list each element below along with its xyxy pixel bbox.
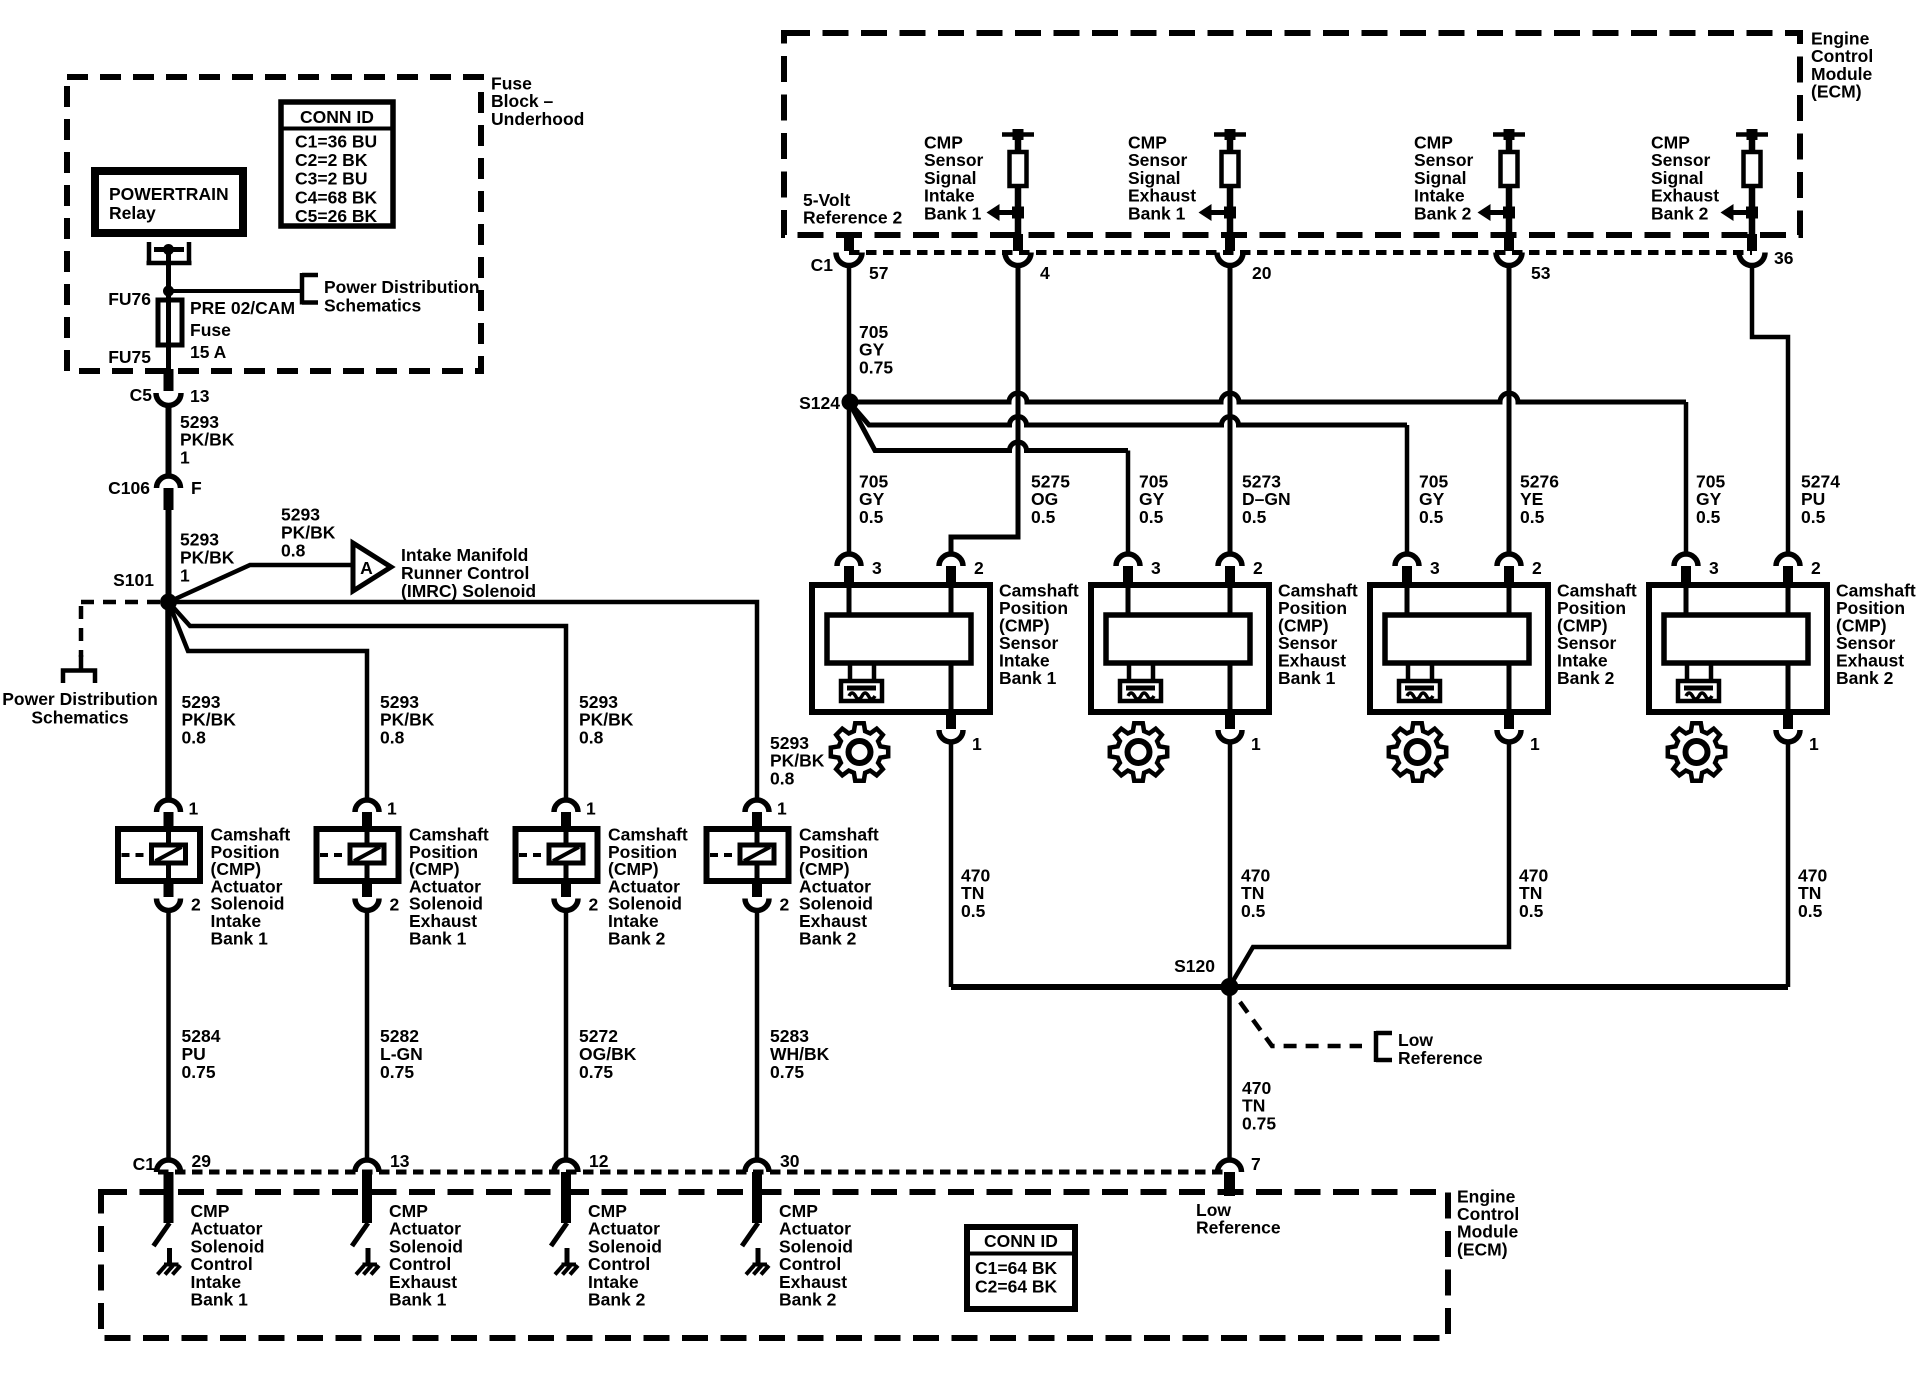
- CONN ID table (ECM): [967, 1227, 1075, 1309]
- solenoid L3: Camshaft Position (CMP) Actuator Solenoid Intake Bank 2: [516, 829, 598, 881]
- svg-text:Relay: Relay: [109, 203, 156, 223]
- svg-text:(IMRC) Solenoid: (IMRC) Solenoid: [401, 581, 536, 601]
- svg-text:S120: S120: [1174, 956, 1215, 976]
- resistor R2 (5V pull-up, CMP sensor signal Exhaust Bank 1): [1214, 132, 1246, 137]
- svg-text:(ECM): (ECM): [1457, 1239, 1508, 1259]
- svg-text:3: 3: [1709, 558, 1719, 578]
- off-page bracket: Power Distribution Schematics: [300, 273, 305, 305]
- ECM connector C1 pin 12: [554, 1160, 578, 1172]
- svg-text:C4=68 BK: C4=68 BK: [295, 187, 378, 207]
- svg-text:Low: Low: [1398, 1030, 1433, 1050]
- wire S120 to ECM pin 7 (470 TN 0.75): [1227, 987, 1232, 1160]
- svg-text:PRE 02/CAM: PRE 02/CAM: [190, 298, 295, 318]
- wire S101 to CMP actuator 2 branch: [169, 602, 368, 800]
- wire to power distribution bracket: [169, 289, 303, 293]
- svg-text:C1: C1: [811, 255, 834, 275]
- svg-text:1: 1: [1809, 734, 1819, 754]
- ground (ECM driver 3): [562, 1263, 577, 1267]
- svg-text:F: F: [191, 478, 202, 498]
- svg-text:30: 30: [780, 1151, 800, 1171]
- wire S101 to CMP actuator 4 branch: [169, 602, 758, 800]
- CMP sensor B2 pin 2 connector: [1218, 554, 1242, 566]
- wire actuator 3 to ECM pin 12: [564, 910, 569, 1160]
- wire S124 to CMP sensor 4 pin 3 (705 GY 0.5): [850, 393, 1686, 402]
- svg-text:Bank 2: Bank 2: [779, 1290, 837, 1310]
- ground (ECM driver 4): [753, 1263, 768, 1267]
- wire resistor R3 to connector C1 pin 53: [1506, 213, 1513, 235]
- solenoid L4: Camshaft Position (CMP) Actuator Solenoid Exhaust Bank 2: [707, 829, 789, 881]
- svg-text:0.8: 0.8: [182, 727, 207, 747]
- svg-text:Bank 2: Bank 2: [1836, 668, 1894, 688]
- wire actuator 4 to ECM pin 30: [755, 910, 760, 1160]
- solenoid L2: Camshaft Position (CMP) Actuator Solenoid Exhaust Bank 1: [317, 829, 399, 881]
- svg-text:2: 2: [589, 895, 599, 915]
- wire resistor R2 to connector C1 pin 20: [1227, 213, 1234, 235]
- wire S101 to CMP actuator 3 branch: [169, 602, 567, 800]
- svg-text:0.75: 0.75: [859, 357, 893, 377]
- off-page fork bracket (power distribution): [79, 655, 84, 670]
- svg-text:Bank 2: Bank 2: [608, 928, 666, 948]
- signal tap arrow (CMP sensor signal 1): [987, 204, 1000, 221]
- svg-text:0.5: 0.5: [859, 507, 884, 527]
- svg-text:0.5: 0.5: [1696, 507, 1721, 527]
- svg-text:Schematics: Schematics: [31, 708, 129, 728]
- svg-text:Underhood: Underhood: [491, 109, 584, 129]
- svg-text:0.5: 0.5: [1801, 507, 1826, 527]
- ECM connector C1 pin 20: [1225, 234, 1235, 251]
- svg-text:S101: S101: [113, 570, 154, 590]
- actuator L3 pin 1 connector: [554, 800, 578, 812]
- ECM enclosure (top): Engine Control Module: [784, 33, 1800, 235]
- svg-text:PK/BK: PK/BK: [281, 523, 336, 543]
- svg-text:2: 2: [1253, 558, 1263, 578]
- svg-text:0.75: 0.75: [579, 1062, 613, 1082]
- ECM connector C1 pin 7: [1218, 1160, 1242, 1172]
- svg-text:C2=2 BK: C2=2 BK: [295, 150, 368, 170]
- svg-text:2: 2: [974, 558, 984, 578]
- wire fuse to C5: [166, 345, 171, 371]
- CMP sensor B3 pin 1 connector: [1504, 712, 1514, 729]
- svg-text:0.8: 0.8: [380, 727, 405, 747]
- svg-text:CONN ID: CONN ID: [300, 107, 374, 127]
- svg-text:0.8: 0.8: [281, 541, 306, 561]
- actuator L1 pin 2 connector: [164, 881, 174, 897]
- actuator L3 pin 2 connector: [561, 881, 571, 897]
- gear icon (camshaft) 3: [1389, 723, 1446, 780]
- svg-text:0.8: 0.8: [579, 727, 604, 747]
- wire S101 to CMP actuator 1: [165, 602, 172, 800]
- svg-text:Bank 1: Bank 1: [211, 928, 269, 948]
- sensor B2: Camshaft Position (CMP) Sensor Exhaust Bank 1: [1091, 585, 1269, 712]
- svg-text:FU76: FU76: [108, 289, 151, 309]
- svg-text:C5=26 BK: C5=26 BK: [295, 206, 378, 226]
- wire 705 GY 0.75 (pin 57 to S124): [847, 263, 852, 402]
- svg-text:0.5: 0.5: [1031, 507, 1056, 527]
- svg-text:3: 3: [872, 558, 882, 578]
- svg-text:0.5: 0.5: [1242, 507, 1267, 527]
- svg-text:Bank 2: Bank 2: [799, 928, 857, 948]
- CMP sensor B3 pin 2 connector: [1497, 554, 1521, 566]
- ECM low-side driver (pin 29): [164, 1172, 174, 1223]
- svg-text:15 A: 15 A: [190, 342, 227, 362]
- resistor R3 (5V pull-up, CMP sensor signal Intake Bank 2): [1493, 132, 1525, 137]
- svg-text:A: A: [360, 558, 373, 578]
- svg-text:CONN ID: CONN ID: [984, 1231, 1058, 1251]
- dashed pointer S120 to Low Reference: [1240, 1002, 1362, 1046]
- svg-text:3: 3: [1151, 558, 1161, 578]
- svg-text:0.5: 0.5: [1419, 507, 1444, 527]
- svg-text:1: 1: [180, 447, 190, 467]
- svg-text:0.75: 0.75: [1242, 1113, 1276, 1133]
- sensor B4: Camshaft Position (CMP) Sensor Exhaust Bank 2: [1649, 585, 1827, 712]
- ground (ECM driver 2): [363, 1263, 378, 1267]
- junction to power distribution: [163, 286, 174, 297]
- sensor B1: Camshaft Position (CMP) Sensor Intake Bank 1: [812, 585, 990, 712]
- CMP sensor B4 pin 1 connector: [1783, 712, 1793, 729]
- ECM connector C1 pin 30: [745, 1160, 769, 1172]
- gear icon (camshaft) 1: [831, 723, 888, 780]
- svg-text:2: 2: [1811, 558, 1821, 578]
- wire S124 to CMP sensor 3 pin 3 (705 GY 0.5): [850, 403, 1407, 425]
- gear icon (camshaft) 4: [1668, 723, 1725, 780]
- svg-text:Bank 1: Bank 1: [924, 203, 982, 223]
- svg-text:Intake Manifold: Intake Manifold: [401, 545, 528, 565]
- svg-text:2: 2: [1532, 558, 1542, 578]
- wire CMP sensor 1 pin 1 to S120 (470 TN 0.5): [949, 742, 954, 987]
- svg-text:0.5: 0.5: [1241, 901, 1266, 921]
- svg-text:1: 1: [189, 799, 199, 819]
- svg-text:C106: C106: [108, 478, 150, 498]
- svg-text:0.8: 0.8: [770, 768, 795, 788]
- svg-text:1: 1: [180, 566, 190, 586]
- wire S101 to IMRC (5293 PK/BK 0.8): [169, 565, 354, 602]
- wire CMP sensor 2 pin 1 to S120 (470 TN 0.5): [1228, 742, 1233, 987]
- wire CMP sensor 4 pin 1 to S120 (470 TN 0.5): [1786, 742, 1791, 987]
- wire pin 53 to CMP sensor 3 pin 2 (5276 YE 0.5): [1507, 263, 1512, 556]
- ECM connector C1 pin 36: [1747, 234, 1757, 251]
- svg-text:Bank 1: Bank 1: [1128, 203, 1186, 223]
- ECM connector line C1 (bottom): [158, 1170, 1229, 1175]
- svg-text:Bank 1: Bank 1: [999, 668, 1057, 688]
- wire resistor R1 to connector C1 pin 4: [1015, 213, 1022, 235]
- svg-text:57: 57: [869, 263, 888, 283]
- svg-text:1: 1: [777, 799, 787, 819]
- svg-text:Power Distribution: Power Distribution: [2, 689, 158, 709]
- svg-text:C1=36 BU: C1=36 BU: [295, 132, 377, 152]
- svg-text:0.5: 0.5: [1519, 901, 1544, 921]
- ECM connector C1 pin 53: [1504, 234, 1514, 251]
- CMP sensor B2 pin 1 connector: [1225, 712, 1235, 729]
- svg-text:Bank 2: Bank 2: [588, 1290, 646, 1310]
- wire pin 36 to CMP sensor 4 pin 2 (5274 PU 0.5): [1752, 263, 1788, 556]
- svg-text:Bank 2: Bank 2: [1557, 668, 1615, 688]
- gear icon (camshaft) 2: [1110, 723, 1167, 780]
- ECM connector C1 pin 29: [157, 1160, 181, 1172]
- signal tap arrow (CMP sensor signal 4): [1721, 204, 1734, 221]
- svg-text:Reference 2: Reference 2: [803, 208, 902, 228]
- signal tap arrow (CMP sensor signal 3): [1478, 204, 1491, 221]
- relay contact / socket symbol: [147, 242, 152, 263]
- off-page arrow A: Intake Manifold Runner Control (IMRC) Solenoid: [353, 543, 391, 591]
- svg-text:POWERTRAIN: POWERTRAIN: [109, 184, 229, 204]
- svg-text:0.75: 0.75: [380, 1062, 414, 1082]
- splice S101: [160, 594, 177, 611]
- ECM connector C1 pin 4: [1013, 234, 1023, 251]
- connector C5 pin 13: [164, 369, 174, 391]
- svg-text:0.75: 0.75: [770, 1062, 804, 1082]
- CMP sensor B2 pin 3 connector: [1116, 554, 1140, 566]
- svg-text:C3=2 BU: C3=2 BU: [295, 169, 367, 189]
- wire C5 to C106: [166, 404, 172, 477]
- svg-text:3: 3: [1430, 558, 1440, 578]
- ECM connector C1 pin 57: [844, 234, 854, 251]
- svg-text:36: 36: [1774, 248, 1794, 268]
- wire S124 to CMP sensor 1 pin 3 (705 GY 0.5): [847, 402, 852, 556]
- fuse FU75/FU76: PRE 02/CAM Fuse 15 A: [166, 291, 171, 302]
- svg-text:7: 7: [1251, 1154, 1261, 1174]
- svg-text:Bank 1: Bank 1: [191, 1290, 249, 1310]
- svg-text:Bank 1: Bank 1: [1278, 668, 1336, 688]
- actuator L2 pin 2 connector: [362, 881, 372, 897]
- sensor B3: Camshaft Position (CMP) Sensor Intake Bank 2: [1370, 585, 1548, 712]
- svg-text:1: 1: [1530, 734, 1540, 754]
- svg-text:C2=64 BK: C2=64 BK: [975, 1277, 1058, 1297]
- wire pin 4 to CMP sensor 1 pin 2 (5275 OG 0.5): [951, 263, 1018, 556]
- signal tap arrow (CMP sensor signal 2): [1199, 204, 1212, 221]
- svg-text:2: 2: [191, 895, 201, 915]
- ECM low-side driver (pin 30): [752, 1172, 762, 1223]
- splice S120: [1221, 978, 1239, 996]
- svg-text:0.5: 0.5: [1798, 901, 1823, 921]
- svg-text:Schematics: Schematics: [324, 296, 422, 316]
- ECM connector line C1 (top): [849, 250, 1752, 255]
- svg-text:5293: 5293: [180, 530, 219, 550]
- svg-text:20: 20: [1252, 263, 1272, 283]
- CMP sensor B1 pin 1 connector: [946, 712, 956, 729]
- svg-text:12: 12: [589, 1151, 609, 1171]
- wire pin 20 to CMP sensor 2 pin 2 (5273 D-GN 0.5): [1228, 263, 1233, 556]
- wire relay to junction: [166, 250, 171, 292]
- svg-text:Fuse: Fuse: [190, 320, 231, 340]
- svg-text:2: 2: [780, 895, 790, 915]
- actuator L2 pin 1 connector: [355, 800, 379, 812]
- svg-text:FU75: FU75: [108, 347, 151, 367]
- svg-text:0.5: 0.5: [961, 901, 986, 921]
- svg-text:C1=64 BK: C1=64 BK: [975, 1258, 1058, 1278]
- CMP sensor B1 pin 3 connector: [837, 554, 861, 566]
- CMP sensor B1 pin 2 connector: [939, 554, 963, 566]
- CONN ID table (fuse block): [281, 102, 393, 226]
- wire actuator 2 to ECM pin 13: [365, 910, 370, 1160]
- wire C106 to S101: [166, 506, 172, 602]
- fuse block underhood (dashed enclosure): [67, 77, 481, 371]
- svg-text:2: 2: [390, 895, 400, 915]
- svg-text:13: 13: [390, 1151, 410, 1171]
- svg-text:29: 29: [192, 1151, 212, 1171]
- svg-text:S124: S124: [799, 393, 840, 413]
- wire CMP sensor 3 pin 1 to S120 (470 TN 0.5): [1230, 742, 1509, 986]
- svg-text:Reference: Reference: [1196, 1218, 1281, 1238]
- CMP sensor B4 pin 3 connector: [1674, 554, 1698, 566]
- svg-text:Reference: Reference: [1398, 1048, 1483, 1068]
- ground (ECM driver 1): [164, 1263, 179, 1267]
- ECM low-side driver (pin 12): [561, 1172, 571, 1223]
- svg-text:0.75: 0.75: [182, 1062, 216, 1082]
- wire S120 bus: [951, 984, 1788, 990]
- svg-text:13: 13: [190, 386, 210, 406]
- actuator L4 pin 1 connector: [745, 800, 769, 812]
- svg-text:Bank 2: Bank 2: [1414, 203, 1472, 223]
- svg-text:C1: C1: [133, 1154, 156, 1174]
- wire resistor R4 to connector C1 pin 36: [1749, 213, 1756, 235]
- svg-text:0.5: 0.5: [1139, 507, 1164, 527]
- svg-text:Bank 1: Bank 1: [409, 928, 467, 948]
- resistor R4 (5V pull-up, CMP sensor signal Exhaust Bank 2): [1736, 132, 1768, 137]
- svg-text:(ECM): (ECM): [1811, 82, 1862, 102]
- svg-text:Runner Control: Runner Control: [401, 563, 529, 583]
- svg-text:53: 53: [1531, 263, 1551, 283]
- CMP sensor B3 pin 3 connector: [1395, 554, 1419, 566]
- resistor R1 (5V pull-up, CMP sensor signal Intake Bank 1): [1002, 132, 1034, 137]
- svg-text:4: 4: [1040, 263, 1050, 283]
- actuator L4 pin 2 connector: [752, 881, 762, 897]
- splice S124: [842, 394, 859, 411]
- svg-text:C5: C5: [130, 385, 153, 405]
- wire S124 to CMP sensor 2 pin 3 (705 GY 0.5): [850, 404, 1128, 451]
- svg-text:5293: 5293: [281, 505, 320, 525]
- actuator L1 pin 1 connector: [157, 800, 181, 812]
- ECM low-side driver (pin 13): [362, 1172, 372, 1223]
- ECM connector C1 pin 13: [355, 1160, 379, 1172]
- connector C106 pin F: [157, 476, 181, 488]
- ECM enclosure (bottom): Engine Control Module: [101, 1192, 1448, 1338]
- svg-text:0.5: 0.5: [1520, 507, 1545, 527]
- svg-text:PK/BK: PK/BK: [180, 548, 235, 568]
- off-page bracket Low Reference: [1374, 1031, 1379, 1062]
- CMP sensor B4 pin 2 connector: [1776, 554, 1800, 566]
- svg-text:1: 1: [586, 799, 596, 819]
- svg-text:Power Distribution: Power Distribution: [324, 277, 480, 297]
- solenoid L1: Camshaft Position (CMP) Actuator Solenoid Intake Bank 1: [118, 829, 200, 881]
- wire actuator 1 to ECM pin 29: [166, 910, 171, 1160]
- svg-text:1: 1: [1251, 734, 1261, 754]
- svg-text:1: 1: [972, 734, 982, 754]
- svg-text:1: 1: [387, 799, 397, 819]
- svg-text:Bank 2: Bank 2: [1651, 203, 1709, 223]
- dashed wire S101 to power distribution schematics: [81, 600, 160, 605]
- relay K: POWERTRAIN Relay: [95, 171, 243, 233]
- svg-text:Bank 1: Bank 1: [389, 1290, 447, 1310]
